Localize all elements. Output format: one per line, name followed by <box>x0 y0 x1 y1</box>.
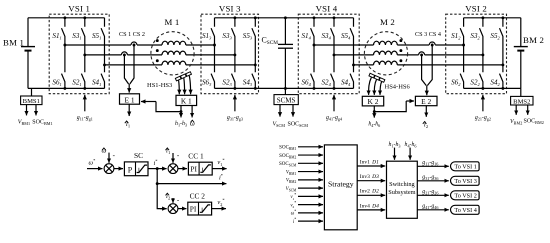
wire phase A1: winding to VSI3 leg1 <box>186 44 215 46</box>
To VSI 2 box <box>451 191 480 200</box>
junction: leg to bottom rail <box>233 87 236 90</box>
svg-text:h1-h3: h1-h3 <box>389 142 401 149</box>
svg-text:VSCM: VSCM <box>273 121 286 128</box>
K1 output omega hat <box>191 106 193 118</box>
node: phase tap on leg <box>481 53 484 56</box>
HS1-HS3 signal wires to K1 <box>178 80 181 94</box>
wire phase B2: winding to CS3 <box>397 54 418 56</box>
wire phase A1: CS2 to winding <box>137 44 162 46</box>
svg-text:SOCBM2: SOCBM2 <box>524 119 544 126</box>
BMS2 box <box>511 96 533 105</box>
svg-text:CS 3 CS 4: CS 3 CS 4 <box>415 31 441 38</box>
svg-text:CS 1 CS 2: CS 1 CS 2 <box>119 31 145 38</box>
svg-text:SOCBM2: SOCBM2 <box>279 154 296 160</box>
svg-text:VSI 2: VSI 2 <box>465 4 487 14</box>
svg-text:Strategy: Strategy <box>328 179 354 188</box>
junction: leg to top rail <box>254 16 257 19</box>
summing junction (current 1) <box>168 164 178 174</box>
svg-text:Switching: Switching <box>389 181 415 188</box>
winding C of M1 <box>162 61 186 65</box>
decoder K1 box <box>176 95 197 105</box>
battery BM2 <box>520 18 522 89</box>
svg-text:VSI 3: VSI 3 <box>219 4 241 14</box>
svg-text:h1-h3: h1-h3 <box>175 121 187 128</box>
CS3 drop wire <box>422 55 427 86</box>
wire phase B1: VSI1 leg2 to CS1 <box>85 54 122 56</box>
gate signal arrow g31-g36 into VSI 3 <box>234 95 236 112</box>
junction: leg to top rail <box>313 16 316 19</box>
svg-text:M 1: M 1 <box>164 17 179 27</box>
svg-text:SOCSCM: SOCSCM <box>288 121 309 128</box>
summing junction (current 2) <box>168 204 178 214</box>
winding A of M1 <box>162 41 186 45</box>
node: phase tap on leg <box>63 44 66 47</box>
svg-text:g31-gg3: g31-gg3 <box>227 115 243 122</box>
svg-text:SCMS: SCMS <box>277 97 296 105</box>
strategy output Inv4 D4 <box>357 209 385 211</box>
E1 output arrow <box>128 104 130 116</box>
Switching Subsystem box <box>387 161 418 218</box>
svg-text:g41-gg4: g41-gg4 <box>326 115 343 122</box>
node: phase tap on leg <box>83 53 86 56</box>
junction: leg to bottom rail <box>501 87 504 90</box>
svg-text:PI: PI <box>190 205 197 214</box>
wire: stub to BMS1 <box>31 88 33 96</box>
wire phase C2: VSI4 leg3 to winding <box>354 64 374 66</box>
wire phase A2: winding to CS4 <box>397 44 429 46</box>
wire: left DC bus bottom rail <box>28 87 105 89</box>
h1-h3 input arrow <box>394 148 396 160</box>
K1 output h1-h3 <box>180 112 182 118</box>
svg-text:SOCBM1: SOCBM1 <box>32 120 52 127</box>
wire phase C1: VSI1 leg3 to winding <box>105 64 163 66</box>
wire: stub to SCMS <box>284 88 286 94</box>
wire phase B1: winding to VSI3 leg2 <box>186 54 235 56</box>
svg-text:K 1: K 1 <box>181 97 192 106</box>
switch S12 <box>460 18 463 89</box>
svg-text:h4-h6: h4-h6 <box>405 142 417 149</box>
junction: leg to bottom rail <box>333 87 336 90</box>
subsystem output g31-g36 <box>417 180 449 182</box>
estimator E2 box <box>415 96 437 105</box>
switch S32 <box>480 18 483 89</box>
node: phase tap on leg <box>501 63 504 66</box>
strategy output Inv1 D1 <box>357 165 385 167</box>
wire phase A2: VSI4 leg1 to winding <box>314 44 374 46</box>
svg-text:BMS2: BMS2 <box>513 98 530 105</box>
node: phase tap on leg <box>233 53 236 56</box>
svg-text:Inv1D1: Inv1D1 <box>360 159 379 165</box>
hall sensors HS1-HS3 <box>175 76 181 81</box>
svg-text:To VSI 4: To VSI 4 <box>454 207 477 214</box>
winding B of M1 <box>162 51 186 55</box>
wire: stub to BMS2 <box>520 88 522 96</box>
node: phase tap on leg <box>313 44 316 47</box>
junction: leg to top rail <box>233 16 236 19</box>
svg-text:SOCBM1: SOCBM1 <box>279 146 296 152</box>
svg-text:g21-gg2: g21-gg2 <box>475 115 491 122</box>
junction: leg to top rail <box>501 16 504 19</box>
svg-text:g21-g26: g21-g26 <box>422 189 438 196</box>
svg-text:g31-g36: g31-g36 <box>422 175 438 182</box>
current sensor CS 1 <box>121 52 127 55</box>
switch S11 <box>62 18 65 89</box>
current controller CC1 box <box>188 162 212 175</box>
node: long i* output <box>156 182 159 185</box>
subsystem output g11-g16 <box>417 165 449 167</box>
junction: leg to top rail <box>481 16 484 19</box>
long i* output arrow <box>157 183 226 185</box>
winding B of M2 <box>374 51 398 55</box>
svg-text:To VSI 1: To VSI 1 <box>454 164 477 171</box>
svg-text:BM 1: BM 1 <box>3 38 24 48</box>
svg-text:K 2: K 2 <box>368 97 379 106</box>
To VSI 1 box <box>451 162 480 171</box>
node: phase tap on leg <box>352 63 355 66</box>
hall sensors HS4-HS6 <box>369 73 375 78</box>
switch S54 <box>350 18 353 89</box>
arrow into CC2 summing junction <box>160 208 167 210</box>
node: phase tap on leg <box>103 63 106 66</box>
svg-text:VSI 1: VSI 1 <box>68 4 90 14</box>
svg-text:To VSI 2: To VSI 2 <box>454 193 477 200</box>
svg-text:Inv4D4: Inv4D4 <box>360 202 379 209</box>
junction: leg to bottom rail <box>313 87 316 90</box>
current sensor CS 4 <box>429 42 435 45</box>
wire SC output to node <box>148 168 157 170</box>
node: phase tap on leg <box>254 63 257 66</box>
wire phase B2: VSI4 leg2 to winding <box>334 54 374 56</box>
wire junction to SC <box>114 168 123 170</box>
CC2 output arrow v2* <box>212 208 226 210</box>
summing junction (speed) <box>104 164 114 174</box>
current sensor CS 3 <box>419 52 425 55</box>
h4-h6 input arrow <box>409 148 411 160</box>
svg-text:Inv3D3: Inv3D3 <box>360 174 379 180</box>
wire into E1 <box>128 84 130 93</box>
switch S51 <box>101 18 104 89</box>
node: phase tap on leg <box>213 44 216 47</box>
svg-text:VBM2: VBM2 <box>510 119 522 126</box>
junction: leg to top rail <box>83 16 86 19</box>
VSI 2 dashed box <box>446 14 507 94</box>
VSI 3 dashed box <box>201 14 259 94</box>
svg-text:Inv2D2: Inv2D2 <box>360 189 379 195</box>
wire node down to CC2 branch <box>157 169 166 209</box>
wire: right DC bus bottom rail <box>464 87 521 89</box>
winding C of M2 <box>374 61 398 65</box>
BMS2 output arrows <box>515 105 517 115</box>
wire: middle DC bus top rail <box>215 17 354 19</box>
svg-text:SC: SC <box>134 151 143 160</box>
svg-text:P: P <box>128 165 133 174</box>
BMS1 box <box>21 96 42 105</box>
speed controller SC box <box>124 162 148 176</box>
subsystem output g21-g26 <box>417 194 449 196</box>
wire node to CC1 summing junction <box>157 168 166 170</box>
switch S14 <box>311 18 314 89</box>
BMS1 output arrows <box>26 105 28 116</box>
CS4 drop wire <box>427 45 432 86</box>
wire K2 to E2 <box>374 101 406 112</box>
capacitor C_SCM <box>284 18 286 44</box>
svg-text:HS1-HS3: HS1-HS3 <box>147 82 172 89</box>
wire K1 to E1 <box>156 102 181 112</box>
decoder K2 box <box>362 96 383 106</box>
current sensor CS 2 <box>131 42 137 45</box>
wire junction to CC1 <box>178 168 187 170</box>
switch S13 <box>211 18 214 89</box>
svg-text:g41-g46: g41-g46 <box>422 204 438 211</box>
M1 winding polarity dots <box>156 39 159 42</box>
gate signal arrow g41-g46 into VSI 4 <box>333 95 335 112</box>
wire phase A1: VSI1 leg1 to CS2 <box>65 44 131 46</box>
junction: leg to top rail <box>63 16 66 19</box>
junction: leg to bottom rail <box>83 87 86 90</box>
wire omega* into summing junction <box>87 168 103 170</box>
svg-text:E 1: E 1 <box>124 95 134 104</box>
wire: middle DC bus bottom rail <box>215 87 354 89</box>
svg-text:g11-gg1: g11-gg1 <box>77 115 93 122</box>
motor M2 dashed circle <box>364 32 407 75</box>
node: phase tap on leg <box>333 53 336 56</box>
svg-text:SOCSCM: SOCSCM <box>279 162 297 168</box>
svg-text:HS4-HS6: HS4-HS6 <box>385 83 411 90</box>
svg-text:VBM1: VBM1 <box>286 170 297 176</box>
svg-text:BM 2: BM 2 <box>523 35 544 45</box>
i2 hat arrow into summing junction <box>172 198 174 203</box>
estimator E1 box <box>120 94 140 104</box>
svg-text:BMS1: BMS1 <box>23 98 40 105</box>
VSI 4 dashed box <box>298 14 359 94</box>
svg-text:h4-h6: h4-h6 <box>368 121 380 128</box>
HS4-HS6 signal wires to K2 <box>369 77 372 95</box>
wire: right DC bus top rail <box>464 17 521 19</box>
To VSI 3 box <box>451 176 480 185</box>
SCMS output arrows <box>279 105 281 117</box>
svg-text:VBM2: VBM2 <box>286 179 297 185</box>
omega hat arrow into summing junction <box>108 153 110 163</box>
SCMS box <box>274 95 298 105</box>
switch S53 <box>252 18 255 89</box>
i1 hat arrow into summing junction <box>172 153 174 163</box>
svg-text:E 2: E 2 <box>421 97 431 106</box>
junction: leg to bottom rail <box>481 87 484 90</box>
To VSI 4 box <box>451 205 480 214</box>
svg-text:PI: PI <box>190 165 197 174</box>
wire phase C2: winding to VSI2 leg3 <box>397 64 503 66</box>
strategy output Inv3 D3 <box>357 180 385 182</box>
svg-text:CC 2: CC 2 <box>190 192 206 201</box>
wire phase C1: winding to VSI3 leg3 <box>186 64 256 66</box>
junction: leg to bottom rail <box>63 87 66 90</box>
VSI 1 dashed box <box>49 14 109 94</box>
switch S33 <box>232 18 235 89</box>
CS1 drop wire <box>124 55 128 84</box>
wire phase B2: CS3 to VSI2 leg2 <box>425 54 483 56</box>
wire phase A2: CS4 to VSI2 leg1 <box>435 44 463 46</box>
M2 winding polarity dots <box>399 39 402 42</box>
CS2 drop wire <box>130 45 134 84</box>
wire: left DC bus top rail <box>28 17 105 19</box>
svg-text:VBM1: VBM1 <box>18 120 30 127</box>
svg-text:To VSI 3: To VSI 3 <box>454 178 477 185</box>
CC1 output arrow v1* <box>212 168 226 170</box>
svg-text:g11-g16: g11-g16 <box>422 160 438 167</box>
Strategy box <box>324 145 357 230</box>
current controller CC2 box <box>188 202 212 215</box>
battery BM1 <box>27 18 29 89</box>
wire phase B1: CS1 to winding <box>127 54 162 56</box>
junction: leg to top rail <box>333 16 336 19</box>
strategy output Inv2 D2 <box>357 194 385 196</box>
winding A of M2 <box>374 41 398 45</box>
switch S34 <box>331 18 334 89</box>
node: phase tap on leg <box>462 44 465 47</box>
gate signal arrow g21-g26 into VSI 2 <box>482 95 484 112</box>
wire into E2 <box>426 86 428 96</box>
node: i* split <box>156 167 159 170</box>
svg-text:M 2: M 2 <box>380 17 395 27</box>
svg-text:Subsystem: Subsystem <box>388 189 415 196</box>
junction: leg to bottom rail <box>254 87 257 90</box>
svg-text:VSI 4: VSI 4 <box>316 4 338 14</box>
gate signal arrow g11-g16 into VSI 1 <box>84 95 86 112</box>
svg-text:CC 1: CC 1 <box>188 152 204 161</box>
subsystem output g41-g46 <box>417 209 449 211</box>
switch S52 <box>500 18 503 89</box>
E2 output arrow <box>425 106 427 117</box>
motor M1 dashed circle <box>151 32 194 75</box>
K2 output h4-h6 <box>373 112 375 118</box>
wire junction to CC2 <box>178 208 187 210</box>
switch S31 <box>81 18 84 89</box>
